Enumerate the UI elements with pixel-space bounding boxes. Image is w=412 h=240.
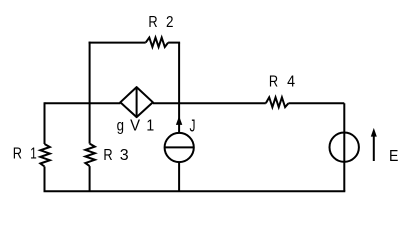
svg-text:R: R bbox=[148, 14, 157, 32]
svg-text:4: 4 bbox=[287, 73, 295, 91]
current source J chord bbox=[165, 146, 194, 148]
svg-text:R: R bbox=[269, 73, 278, 91]
source E circle bbox=[330, 133, 359, 162]
wire top bus middle segment bbox=[153, 102, 266, 104]
resistor R3 bbox=[85, 144, 95, 167]
arrowhead E annotation bbox=[371, 128, 377, 137]
svg-text:3: 3 bbox=[120, 147, 129, 164]
svg-text:1: 1 bbox=[146, 117, 154, 135]
svg-text:2: 2 bbox=[166, 14, 173, 31]
dependent source gV1 internal line bbox=[136, 87, 138, 117]
wire R2 top left segment bbox=[89, 42, 146, 44]
svg-text:1: 1 bbox=[30, 144, 37, 162]
wire R2 loop right vertical bbox=[178, 43, 180, 104]
wire left branch lower bbox=[44, 167, 46, 192]
current source J circle bbox=[165, 133, 194, 162]
svg-text:g: g bbox=[117, 118, 124, 135]
svg-text:R: R bbox=[13, 145, 22, 163]
arrow E annotation line bbox=[373, 134, 375, 161]
resistor R4 bbox=[266, 97, 289, 107]
wire R2 top right segment bbox=[168, 42, 180, 44]
wire left branch upper bbox=[44, 102, 46, 144]
wire right branch bbox=[343, 103, 345, 191]
dependent source gV1 diamond bbox=[120, 87, 153, 117]
svg-text:E: E bbox=[389, 147, 398, 165]
resistor R2 bbox=[146, 38, 168, 47]
wire J branch lower bbox=[178, 162, 180, 191]
wire top bus right segment bbox=[288, 102, 344, 104]
wire J branch upper bbox=[178, 103, 180, 133]
wire R3 branch lower bbox=[89, 166, 91, 191]
wire R2 loop left vertical bbox=[89, 42, 91, 104]
arrowhead J bbox=[176, 116, 182, 125]
svg-text:R: R bbox=[103, 147, 112, 165]
wire bottom bus bbox=[44, 190, 346, 192]
wire top bus left segment bbox=[45, 102, 121, 104]
wire R3 branch upper bbox=[89, 103, 91, 143]
resistor R1 bbox=[40, 144, 50, 167]
svg-text:J: J bbox=[190, 116, 196, 136]
svg-text:V: V bbox=[130, 117, 141, 135]
